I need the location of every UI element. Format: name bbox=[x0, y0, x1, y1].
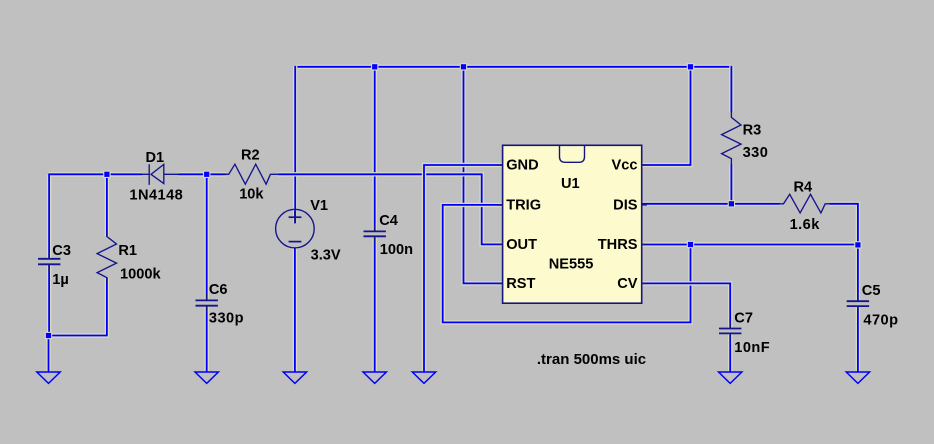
svg-text:1.6k: 1.6k bbox=[790, 217, 821, 233]
ground under C7 bbox=[719, 372, 742, 383]
svg-text:1000k: 1000k bbox=[120, 266, 161, 282]
node junction C3 bottom bbox=[45, 332, 52, 339]
wire C6 top leg bbox=[204, 175, 208, 300]
svg-text:330p: 330p bbox=[209, 310, 244, 326]
ground under V1 bbox=[283, 372, 306, 383]
capacitor C4 bbox=[364, 213, 414, 258]
wire top Vcc rail bbox=[296, 65, 732, 69]
svg-text:OUT: OUT bbox=[506, 237, 537, 253]
wire bottom node to ground bbox=[46, 336, 50, 372]
wire diode D1 to R2 with C6 tap bbox=[178, 172, 226, 176]
svg-text:470p: 470p bbox=[863, 312, 898, 328]
ground under C3 node bbox=[37, 372, 60, 383]
op-amp U1 NE555 body bbox=[497, 145, 647, 303]
svg-text:1µ: 1µ bbox=[52, 272, 69, 288]
node junction DIS-R3 bbox=[728, 200, 735, 207]
wire C3 top to node A bbox=[48, 174, 142, 258]
svg-text:R1: R1 bbox=[118, 243, 137, 259]
capacitor C6 bbox=[196, 282, 244, 327]
ground under C5 bbox=[846, 372, 869, 383]
wire rail to C4 top bbox=[373, 67, 377, 231]
wire R1 top leg bbox=[105, 175, 109, 236]
node junction C6 top bbox=[203, 171, 210, 178]
spice directive bbox=[537, 351, 646, 368]
svg-text:R2: R2 bbox=[241, 148, 260, 164]
svg-text:C7: C7 bbox=[734, 310, 753, 326]
wire C6 bottom to ground bbox=[204, 306, 208, 372]
svg-text:330: 330 bbox=[743, 145, 769, 161]
node junction rail-C4 bbox=[371, 63, 378, 70]
resistor R2 bbox=[223, 148, 279, 203]
ground under C6 bbox=[195, 372, 218, 383]
capacitor C5 bbox=[847, 283, 899, 329]
wire R4 right to THRS node bbox=[830, 204, 858, 245]
svg-text:CV: CV bbox=[617, 276, 638, 292]
svg-text:THRS: THRS bbox=[598, 237, 638, 253]
wire C3 bottom leg bbox=[47, 265, 51, 336]
svg-text:V1: V1 bbox=[310, 198, 328, 214]
svg-text:3.3V: 3.3V bbox=[311, 247, 341, 263]
ground under GND wire bbox=[412, 372, 435, 383]
svg-text:10k: 10k bbox=[239, 186, 264, 202]
node junction THRS link bbox=[687, 241, 694, 248]
svg-text:C3: C3 bbox=[52, 243, 71, 259]
svg-text:D1: D1 bbox=[146, 150, 165, 166]
svg-text:U1: U1 bbox=[561, 176, 580, 192]
diode D1 bbox=[129, 150, 183, 203]
svg-text:Vcc: Vcc bbox=[612, 157, 638, 173]
wire R2 right to OUT pin bbox=[278, 174, 502, 244]
svg-text:C5: C5 bbox=[862, 283, 881, 299]
wire V1 bottom to ground bbox=[293, 248, 297, 372]
svg-text:1N4148: 1N4148 bbox=[129, 187, 183, 203]
node junction THRS-C5 bbox=[854, 241, 861, 248]
resistor R4 bbox=[780, 179, 830, 232]
svg-text:.tran 500ms uic: .tran 500ms uic bbox=[537, 351, 646, 368]
svg-text:10nF: 10nF bbox=[734, 340, 770, 356]
wire CV pin to C7 top bbox=[642, 283, 731, 328]
wire C4 bottom to ground bbox=[373, 237, 377, 372]
svg-text:100n: 100n bbox=[380, 242, 413, 258]
svg-text:GND: GND bbox=[506, 157, 538, 173]
node junction R1 top bbox=[103, 171, 110, 178]
capacitor C3 bbox=[38, 243, 71, 288]
svg-text:R4: R4 bbox=[794, 179, 814, 195]
svg-text:R3: R3 bbox=[743, 122, 762, 138]
wire R3 bottom to DIS node bbox=[729, 164, 733, 204]
wire DIS pin to R4 left bbox=[642, 202, 780, 206]
wire TRIG to THRS link bbox=[443, 205, 691, 323]
svg-text:RST: RST bbox=[506, 276, 535, 292]
wire R1 bottom to bottom node bbox=[48, 278, 107, 336]
svg-text:TRIG: TRIG bbox=[506, 197, 541, 213]
resistor R1 bbox=[97, 232, 161, 283]
wire C5 bottom to ground bbox=[856, 307, 860, 372]
voltage source V1 bbox=[276, 198, 341, 264]
wire THRS node to C5 top bbox=[856, 245, 860, 301]
svg-text:C4: C4 bbox=[379, 213, 399, 229]
wire THRS pin to C5 node bbox=[642, 242, 858, 246]
resistor R3 bbox=[722, 112, 769, 164]
node junction rail-RST bbox=[460, 63, 467, 70]
wire rail to V1 top bbox=[293, 66, 297, 223]
ground under C4 bbox=[363, 372, 386, 383]
svg-text:C6: C6 bbox=[209, 282, 228, 298]
node junction rail-Vcc bbox=[687, 63, 694, 70]
wire rail to R3 top bbox=[729, 66, 733, 112]
svg-text:DIS: DIS bbox=[613, 197, 638, 213]
capacitor C7 bbox=[719, 310, 770, 356]
wire C7 bottom to ground bbox=[728, 334, 732, 372]
wire rail to RST pin bbox=[464, 67, 503, 284]
wire GND pin to ground bbox=[424, 165, 502, 372]
wire rail to Vcc pin bbox=[642, 67, 691, 165]
svg-text:NE555: NE555 bbox=[549, 256, 594, 272]
